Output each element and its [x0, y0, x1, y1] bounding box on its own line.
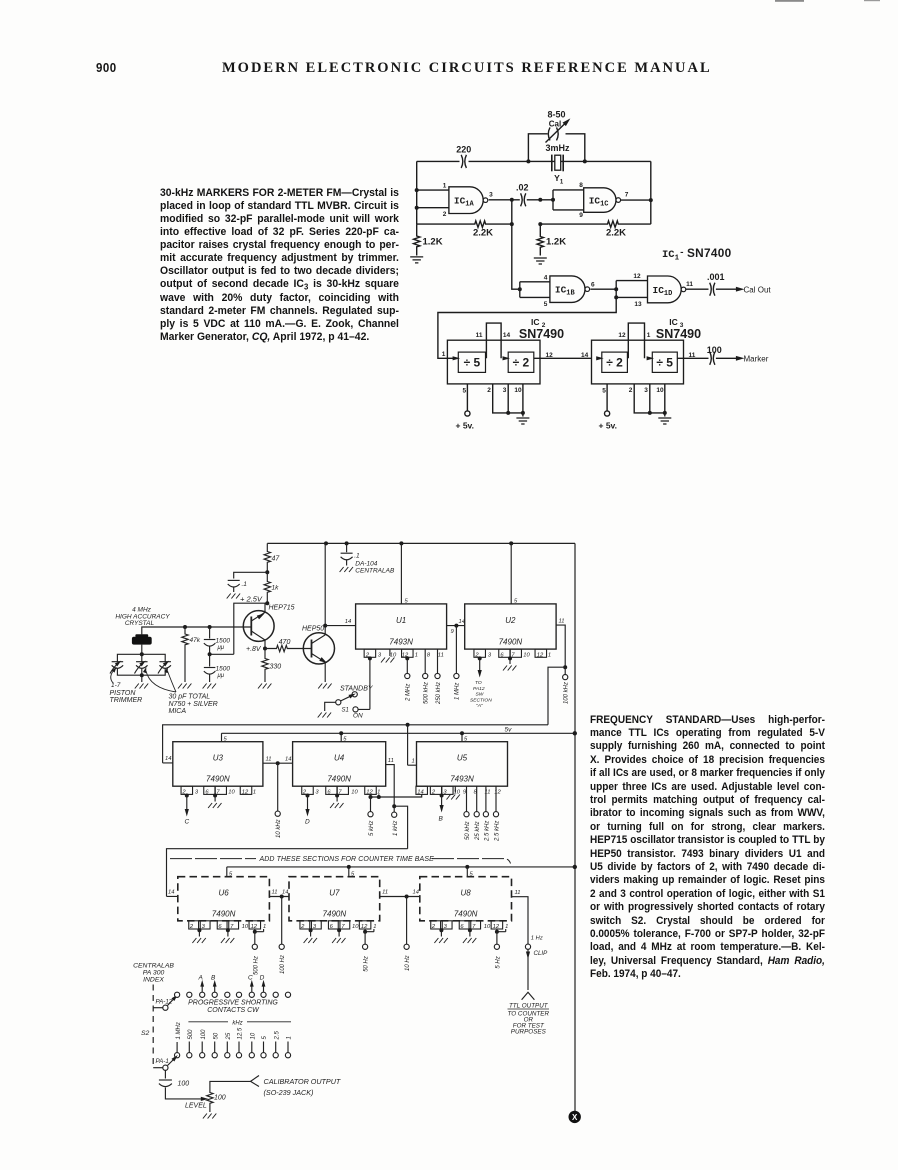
svg-text:U6: U6: [218, 888, 229, 897]
U8 pins 6 7 ground: [459, 921, 471, 929]
IC U6 box 7490N: [178, 877, 270, 921]
svg-text:U5: U5: [457, 753, 468, 762]
wire IC1D output pin11: [686, 288, 709, 290]
svg-text:IC: IC: [669, 317, 678, 327]
wire HEP50 collector to rail and U1 pin14: [324, 543, 326, 635]
wire U8 pins12 1 tie: [497, 929, 506, 932]
transistor Q1 HEP715: [243, 611, 274, 642]
svg-text:TRIMMER: TRIMMER: [110, 697, 143, 704]
svg-text:1 Hz: 1 Hz: [531, 936, 543, 942]
label kHz bracket: [188, 1021, 291, 1023]
page number: [96, 61, 117, 75]
wire base line: [142, 627, 252, 634]
svg-text:7490N: 7490N: [327, 775, 351, 784]
U5 pins 2 3 to B: [430, 786, 442, 794]
svg-text:12: 12: [537, 652, 544, 658]
svg-text:50 kHz: 50 kHz: [465, 821, 471, 840]
svg-text:12: 12: [546, 352, 554, 359]
U4 pin2 stub to D: [302, 786, 314, 794]
op-amp gate IC1B (SN7400 NAND): [550, 276, 585, 303]
svg-text:2.2K: 2.2K: [606, 228, 626, 239]
svg-text:PA12: PA12: [473, 686, 485, 692]
svg-text:12: 12: [493, 924, 500, 930]
IC U2 box 7490N: [465, 604, 556, 649]
svg-text:11: 11: [686, 281, 693, 288]
svg-text:IC1D: IC1D: [653, 285, 673, 298]
resistor 470: [265, 645, 312, 651]
svg-text:7490N: 7490N: [499, 638, 523, 647]
svg-text:12: 12: [633, 273, 641, 280]
divide-by-2 box IC3: [602, 352, 628, 372]
crystal Y1 3mHz: [551, 155, 553, 172]
svg-text:5 Hz: 5 Hz: [495, 956, 501, 968]
terminal 1 Hz: [525, 944, 530, 949]
wire U4 pin11 output 1kHz: [386, 765, 395, 807]
TTL output chevron: [522, 992, 535, 1000]
svg-text:250 kHz: 250 kHz: [436, 682, 442, 705]
op-amp gate IC1D (SN7400 NAND): [648, 276, 682, 303]
wire U1 pin2 to S1: [358, 658, 370, 709]
svg-text:SECTION: SECTION: [470, 697, 492, 703]
svg-text:HEP50: HEP50: [302, 626, 324, 633]
U2 pin12 stub: [535, 649, 547, 657]
svg-text:CENTRALAB: CENTRALAB: [355, 568, 395, 575]
IC U2 block IC2 SN7490 outer: [447, 340, 540, 384]
ground 330: [258, 684, 271, 689]
svg-text:PISTON: PISTON: [110, 690, 137, 697]
svg-text:12.5: 12.5: [238, 1027, 244, 1039]
resistor 1k: [264, 572, 270, 603]
crystal body: [132, 637, 152, 645]
svg-text:3: 3: [488, 652, 492, 658]
svg-text:1500: 1500: [216, 666, 231, 673]
svg-text:2.2K: 2.2K: [473, 228, 493, 239]
svg-text:PURPOSES: PURPOSES: [511, 1028, 547, 1035]
capacitor 1500 lower: [209, 654, 211, 666]
ground level pot: [203, 1114, 216, 1119]
svg-text:2: 2: [443, 211, 447, 218]
svg-text:÷ 2: ÷ 2: [606, 356, 623, 370]
IC U3 box 7490N: [173, 742, 263, 787]
wire U4 pin5 stub: [340, 733, 342, 741]
svg-text:12: 12: [361, 924, 368, 930]
svg-text:12: 12: [366, 790, 373, 796]
wire left feedback vertical: [416, 161, 418, 224]
svg-text:A: A: [198, 975, 203, 982]
svg-text:B: B: [439, 816, 444, 823]
svg-text:DA-104: DA-104: [355, 561, 377, 568]
IC U8 box 7490N: [420, 877, 512, 921]
svg-text:MICA: MICA: [169, 708, 187, 715]
svg-text:Cal: Cal: [549, 120, 561, 129]
connector calibrator jack: [251, 1076, 260, 1087]
wire U8 pin5 stub: [466, 867, 468, 877]
svg-text:14: 14: [459, 619, 465, 625]
svg-text:5: 5: [262, 1036, 268, 1040]
svg-text:1: 1: [412, 759, 415, 765]
svg-text:8: 8: [579, 182, 583, 189]
terminal 10 kHz: [277, 763, 279, 811]
resistor 1.2K right: [537, 224, 543, 255]
svg-text:1-7: 1-7: [111, 682, 121, 689]
wire IC2 pin1 input arrow: [447, 357, 455, 359]
svg-text:5: 5: [462, 387, 466, 394]
svg-text:3mHz: 3mHz: [545, 143, 570, 153]
wire U7 pin11 to U8 pin14: [380, 896, 420, 898]
wire U4 pins12 1 tie to U5 pin14: [371, 794, 422, 797]
svg-text:÷ 5: ÷ 5: [464, 356, 481, 370]
divide-by-5 box IC3: [652, 352, 677, 372]
op-amp gate IC1A (SN7400 NAND): [449, 187, 483, 214]
svg-text:8: 8: [427, 652, 431, 658]
svg-text:12: 12: [618, 332, 626, 339]
svg-text:S2: S2: [141, 1030, 150, 1037]
svg-text:7493N: 7493N: [389, 638, 413, 647]
U5 pin14 stub: [416, 786, 428, 794]
wire IC2 pin12 output: [534, 357, 592, 359]
ground DA-104: [340, 567, 353, 572]
capacitor 100 output: [159, 1079, 172, 1081]
wire U5 pin12 to 2.5kHz: [495, 786, 497, 811]
svg-text:S1: S1: [342, 708, 349, 714]
capacitor 100: [710, 352, 712, 365]
U3 pin12 stub: [240, 786, 252, 794]
U6 pin12 stub: [249, 921, 260, 929]
svg-text:1: 1: [287, 1036, 293, 1039]
trimmer capacitor 8-50 Cal: [548, 127, 558, 140]
wire 1kHz to row3 feed: [167, 806, 408, 896]
wire U1 pin9 to U2 pin14: [447, 625, 465, 627]
divide-by-2 box IC2: [508, 352, 534, 372]
svg-text:5 kHz: 5 kHz: [369, 821, 375, 836]
wire .02 to IC1C inputs: [527, 199, 553, 201]
wire U5 pin5 stub: [461, 733, 463, 741]
svg-text:1: 1: [415, 652, 418, 658]
svg-text:LEVEL: LEVEL: [185, 1103, 207, 1110]
svg-text:11: 11: [559, 619, 565, 625]
svg-text:(SO-239 JACK): (SO-239 JACK): [264, 1088, 314, 1097]
terminal 10 Hz: [406, 897, 408, 945]
U1 pin12 stub to 2MHz: [402, 649, 414, 657]
svg-text:7490N: 7490N: [323, 909, 347, 918]
wire U2 pin5 from rail: [510, 543, 512, 604]
wire U1 pin10 ground: [389, 649, 391, 656]
scanner edge marks: [775, 0, 804, 2]
svg-text:X: X: [572, 1113, 578, 1122]
svg-text:.001: .001: [707, 272, 725, 282]
label contacts A B C D: [201, 985, 203, 992]
svg-text:1: 1: [560, 179, 564, 185]
svg-text:STANDBY: STANDBY: [340, 685, 374, 692]
wire +5v rail row3: [227, 867, 575, 877]
svg-text:14: 14: [581, 352, 589, 359]
svg-text:1 kHz: 1 kHz: [393, 821, 399, 836]
svg-text:47: 47: [272, 556, 281, 563]
svg-text:÷ 5: ÷ 5: [656, 356, 673, 370]
wire IC3 pin12 to pin1 top loop: [628, 323, 644, 358]
wire feed to U5 pin1: [408, 725, 417, 765]
svg-text:25: 25: [226, 1032, 232, 1040]
svg-text:"A": "A": [476, 703, 483, 709]
svg-text:11: 11: [484, 790, 490, 796]
U2 pins 6 7 stub to ground: [499, 649, 511, 657]
svg-text:CONTACTS CW: CONTACTS CW: [207, 1007, 260, 1014]
wire Cal Out with arrow: [716, 288, 738, 290]
IC U5 box 7493N: [417, 742, 508, 787]
wire U7 pin5 stub: [348, 867, 350, 877]
svg-text:PA-1: PA-1: [156, 1058, 169, 1065]
svg-text:IC1A: IC1A: [454, 196, 475, 209]
U7 pins 2 3 ground: [300, 921, 312, 929]
wire U5 pin11 to 2.5kHz: [485, 786, 487, 811]
svg-text:10 Hz: 10 Hz: [405, 955, 411, 971]
svg-text:Marker: Marker: [744, 355, 769, 364]
svg-text:ADD THESE SECTIONS FOR COU: ADD THESE SECTIONS FOR COUNTER TIME BASE: [259, 856, 435, 863]
svg-text:2: 2: [629, 387, 633, 394]
svg-text:CRYSTAL: CRYSTAL: [125, 620, 155, 627]
svg-text:100 kHz: 100 kHz: [563, 682, 569, 704]
svg-text:500 kHz: 500 kHz: [424, 682, 430, 704]
svg-text:10: 10: [242, 924, 249, 930]
wire HEP50 emitter to ground: [324, 662, 326, 682]
U2 pin2 stub to PA12: [474, 649, 486, 657]
svg-text:1: 1: [253, 790, 256, 796]
label add these sections for counter time base: [170, 858, 256, 860]
wire U3 pin11 to U4 pin14: [263, 762, 293, 764]
divide-by-5 box IC2: [458, 352, 485, 372]
IC U4 box 7490N: [293, 742, 386, 787]
svg-text:+ 5v.: + 5v.: [456, 421, 475, 431]
svg-text:7493N: 7493N: [450, 775, 474, 784]
wire IC3 pin11 output: [677, 357, 708, 359]
ground trimmer: [135, 684, 148, 689]
wire main oscillator top line: [417, 160, 651, 162]
svg-text:Cal Out: Cal Out: [744, 286, 772, 295]
wire U5 pin10 ground: [454, 786, 456, 792]
svg-text:SN7490: SN7490: [656, 327, 701, 341]
trimmer arrows: [110, 664, 118, 674]
svg-text:TTL OUTPUT: TTL OUTPUT: [509, 1003, 549, 1010]
svg-text:U2: U2: [505, 616, 516, 625]
svg-text:PROGRESSIVE SHORTING: PROGRESSIVE SHORTING: [188, 1000, 278, 1007]
wire right vertical pin7 feedback: [650, 161, 652, 224]
svg-text:47k: 47k: [190, 637, 201, 644]
terminal 100 Hz: [281, 897, 283, 945]
svg-text:U1: U1: [396, 616, 406, 625]
ground .1 bypass: [227, 594, 240, 599]
svg-text:25 kHz: 25 kHz: [475, 821, 481, 841]
wire U6 pin11 to U7 pin14: [269, 896, 289, 898]
switch PA-1 wiper: [153, 1067, 163, 1069]
svg-text:1.2K: 1.2K: [546, 236, 566, 247]
svg-text:+ 5v.: + 5v.: [599, 421, 618, 431]
svg-text:1: 1: [443, 182, 447, 189]
svg-text:1: 1: [442, 351, 446, 358]
svg-text:9: 9: [579, 212, 583, 219]
ground right 1.2K: [534, 258, 547, 264]
svg-text:7: 7: [625, 192, 629, 199]
contact row PA-12: [175, 992, 180, 997]
capacitor .1 bypass: [234, 572, 268, 578]
terminal 5 kHz: [370, 797, 372, 812]
svg-text:1: 1: [548, 652, 551, 658]
svg-text:INDEX: INDEX: [143, 977, 164, 984]
wire U8 pin11 output 1Hz: [512, 897, 529, 944]
terminal 5 Hz: [496, 932, 498, 945]
svg-text:D: D: [305, 819, 310, 826]
wire collector to cap divider tap: [210, 603, 268, 654]
svg-text:3: 3: [503, 387, 507, 394]
contact row PA-1 with frequency labels: [175, 1053, 180, 1058]
svg-text:14: 14: [168, 890, 174, 896]
U8 pin12 stub: [491, 921, 503, 929]
svg-text:11: 11: [476, 332, 483, 339]
svg-text:B: B: [211, 975, 216, 982]
svg-text:3: 3: [644, 387, 648, 394]
transistor Q2 HEP50: [303, 633, 334, 664]
svg-text:14: 14: [417, 790, 423, 796]
ground HEP50: [318, 684, 331, 689]
wire IC3 pins 2 3 10 to ground: [634, 384, 665, 417]
capacitor 1500 upper: [209, 627, 211, 639]
svg-text:100: 100: [214, 1095, 226, 1102]
svg-text:7490N: 7490N: [206, 775, 230, 784]
svg-text:1500: 1500: [216, 638, 231, 645]
svg-text:1 MHz: 1 MHz: [455, 683, 461, 700]
svg-text:9: 9: [451, 629, 455, 635]
U8 pins 2 3 ground: [431, 921, 443, 929]
svg-text:U4: U4: [334, 753, 345, 762]
IC U3 block IC3 SN7490 outer: [592, 340, 684, 384]
wire U6 pins12 1 tie: [255, 929, 264, 932]
svg-text:SN7490: SN7490: [519, 327, 564, 341]
capacitor 220: [461, 155, 463, 168]
svg-text:11: 11: [388, 758, 394, 764]
svg-text:14: 14: [285, 757, 291, 763]
svg-text:14: 14: [165, 756, 171, 762]
ground 1500: [203, 684, 216, 689]
svg-text:2.5 kHz: 2.5 kHz: [484, 821, 490, 842]
caption text top circuit: [160, 187, 399, 344]
svg-text:470: 470: [279, 639, 291, 646]
svg-text:100 Hz: 100 Hz: [280, 955, 286, 974]
svg-text:100: 100: [707, 345, 722, 355]
svg-text:10: 10: [351, 790, 358, 796]
wire PA-1 wiper to cap 100: [164, 1070, 166, 1078]
svg-text:14: 14: [503, 332, 511, 339]
wire U7 pins12 1 tie: [365, 929, 374, 932]
wire IC1C output pin7: [621, 199, 651, 201]
svg-text:10: 10: [656, 387, 664, 394]
node X supply point: [569, 1111, 581, 1123]
svg-text:5: 5: [602, 387, 606, 394]
svg-text:10: 10: [514, 387, 522, 394]
svg-text:÷ 2: ÷ 2: [513, 356, 530, 370]
wire U1 pin8 to 500kHz: [424, 649, 426, 673]
wire +5v rail row2: [222, 733, 575, 741]
capacitor piston trimmer 3: [159, 661, 171, 663]
svg-text:IC1B: IC1B: [555, 285, 576, 298]
svg-text:CALIBRATOR OUTPUT: CALIBRATOR OUTPUT: [264, 1077, 341, 1086]
svg-text:C: C: [248, 975, 253, 982]
ground IC2: [516, 418, 529, 424]
node +2.5V collector: [265, 601, 269, 605]
svg-text:12: 12: [494, 790, 501, 796]
svg-text:CENTRALAB: CENTRALAB: [133, 963, 174, 970]
potentiometer level 100: [207, 1082, 213, 1112]
svg-text:50 Hz: 50 Hz: [364, 956, 370, 972]
svg-text:D: D: [260, 975, 265, 982]
svg-text:10: 10: [352, 924, 359, 930]
capacitor .001: [710, 283, 712, 296]
svg-text:7490N: 7490N: [454, 909, 478, 918]
wire IC1B output pin6: [590, 288, 616, 290]
resistor 2.2K right: [540, 221, 651, 227]
wire IC1A input pin1: [417, 189, 449, 191]
wire +5V top rail: [267, 543, 575, 1111]
svg-text:5v: 5v: [505, 727, 513, 734]
svg-text:30 pF TOTAL: 30 pF TOTAL: [169, 694, 211, 701]
svg-text:10: 10: [484, 924, 491, 930]
resistor 2.2K left: [417, 221, 512, 227]
IC U7 box 7490N: [289, 877, 380, 921]
svg-text:14: 14: [282, 890, 288, 896]
svg-text:11: 11: [382, 890, 388, 896]
svg-text:6: 6: [591, 282, 595, 289]
capacitor .02: [521, 193, 523, 206]
svg-text:3: 3: [315, 790, 319, 796]
node IC1B tied inputs: [520, 282, 550, 298]
page header title: [222, 60, 712, 77]
svg-text:11: 11: [266, 757, 272, 763]
capacitor .1 DA-104 CENTRALAB: [346, 543, 348, 552]
svg-text:10: 10: [390, 652, 397, 658]
ground left 1.2K: [410, 257, 423, 263]
svg-text:11: 11: [515, 890, 521, 896]
svg-text:10: 10: [523, 652, 530, 658]
svg-text:2.5 kHz: 2.5 kHz: [495, 821, 501, 842]
svg-text:4: 4: [544, 274, 548, 281]
wire U1 pin5 from rail: [400, 543, 402, 604]
svg-text:13: 13: [634, 301, 642, 308]
svg-text:10: 10: [228, 790, 235, 796]
svg-text:330: 330: [270, 664, 282, 671]
svg-text:7490N: 7490N: [212, 909, 236, 918]
wire trimmer top bar: [117, 654, 165, 661]
svg-text:.1: .1: [242, 581, 248, 588]
wire IC1A input pin2: [417, 207, 449, 209]
svg-text:50: 50: [213, 1032, 219, 1039]
svg-text:12: 12: [251, 924, 258, 930]
svg-text:2 MHz: 2 MHz: [406, 684, 412, 702]
svg-text:1: 1: [647, 332, 651, 339]
caption text bottom circuit: [590, 714, 825, 982]
U3 pin2 stub to C: [181, 786, 193, 794]
terminal 1 kHz: [393, 806, 395, 812]
resistor 47: [264, 543, 270, 572]
svg-text:IC1-: IC1-: [662, 248, 685, 263]
svg-text:500 Hz: 500 Hz: [253, 956, 259, 975]
wire S1 pole to ground: [325, 702, 336, 711]
wire U5 pin9 to 50kHz: [466, 786, 468, 811]
clip connection: [527, 949, 529, 990]
svg-text:1.2K: 1.2K: [423, 236, 443, 247]
U6 pins 6 7 ground: [217, 921, 229, 929]
wire 1MHz tap: [455, 626, 457, 674]
wire IC3 pin14 input arrow: [596, 356, 603, 360]
svg-text:CLIP: CLIP: [534, 950, 549, 957]
svg-text:14: 14: [413, 890, 419, 896]
